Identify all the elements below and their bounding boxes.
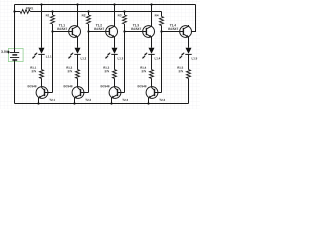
emitter arrow T1.1 xyxy=(72,34,77,37)
svg-text:L1.2: L1.2 xyxy=(80,56,86,60)
junction emitter rail xyxy=(73,102,75,104)
wire emitter down xyxy=(114,37,116,48)
wire emitter to rail xyxy=(74,98,76,104)
resistor R1.4 27k xyxy=(150,70,154,79)
wire base bias line xyxy=(30,11,161,13)
wire LED to resistor xyxy=(151,54,153,69)
wire LED to resistor xyxy=(114,54,116,69)
wire LED to resistor xyxy=(41,54,43,69)
wire collector to rail xyxy=(77,5,79,27)
resistor R1.1 27k xyxy=(40,70,44,79)
wire collector to rail xyxy=(151,5,153,27)
wire base column down xyxy=(124,32,126,93)
emitter arrow T1.4 xyxy=(183,34,188,37)
wire base bias line left xyxy=(15,11,21,13)
emitter arrow T2.2 xyxy=(75,95,81,98)
wire emitter down xyxy=(77,37,79,48)
transistor T1.3 BC547 xyxy=(143,26,155,38)
svg-text:BC547: BC547 xyxy=(168,27,178,31)
svg-text:27k: 27k xyxy=(178,69,183,73)
LED light arrows L1.5 xyxy=(182,53,185,56)
LED L1.4 xyxy=(149,48,155,54)
wire resistor to collector xyxy=(77,78,79,87)
svg-text:L1.1: L1.1 xyxy=(46,55,52,59)
wire base column down xyxy=(52,32,54,93)
wire collector to rail xyxy=(114,5,116,27)
LED L1.5 xyxy=(186,48,192,54)
svg-text:T2.1: T2.1 xyxy=(49,98,55,102)
svg-text:BC547: BC547 xyxy=(94,27,104,31)
resistor R1 xyxy=(52,12,54,16)
svg-text:R3: R3 xyxy=(118,13,122,17)
transistor T2.4 BC548 xyxy=(146,87,158,99)
svg-text:BC548: BC548 xyxy=(137,84,146,88)
junction base split R1 xyxy=(51,30,53,32)
junction base split R4 xyxy=(160,30,162,32)
wire resistor to collector xyxy=(151,78,153,87)
resistor R1.2 27k xyxy=(76,70,80,79)
wire collector stub T1.4 xyxy=(188,25,190,26)
wire base column down xyxy=(88,32,90,93)
emitter arrow T2.3 xyxy=(112,95,118,98)
wire emitter to rail xyxy=(148,98,150,104)
svg-text:R4: R4 xyxy=(155,13,159,17)
svg-text:L1.3: L1.3 xyxy=(117,56,123,60)
LED L1.2 xyxy=(75,48,81,54)
svg-text:L1.4: L1.4 xyxy=(154,56,160,60)
wire resistor to collector xyxy=(41,78,43,87)
junction emitter rail xyxy=(37,102,39,104)
resistor R3 xyxy=(124,12,126,16)
wire right feedback drop xyxy=(195,5,197,32)
svg-text:R1: R1 xyxy=(46,13,50,17)
transistor T1.1 BC547 xyxy=(69,26,81,38)
transistor T2.1 BC548 xyxy=(36,87,48,99)
svg-text:T2.3: T2.3 xyxy=(122,98,128,102)
wire bottom return rail xyxy=(15,103,189,105)
svg-text:BC547: BC547 xyxy=(57,27,67,31)
junction battery/base line xyxy=(13,10,15,12)
LED light arrows L1.3 xyxy=(108,53,111,56)
battery 3.0V xyxy=(14,5,16,53)
wire stub to T1.4 xyxy=(191,31,196,33)
resistor R4 xyxy=(161,12,163,17)
wire emitter to rail xyxy=(111,98,113,104)
transistor T1.2 BC547 xyxy=(106,26,118,38)
resistor R1.5 27k xyxy=(187,70,191,79)
svg-text:27k: 27k xyxy=(67,69,72,73)
wire column 1 from supply xyxy=(41,5,43,48)
transistor T2.3 BC548 xyxy=(109,87,121,99)
wire emitter to rail xyxy=(38,98,40,104)
wire LED to resistor xyxy=(188,54,190,69)
transistor T2.2 BC548 xyxy=(72,87,84,99)
wire last column to bottom rail xyxy=(188,78,190,103)
svg-text:BC548: BC548 xyxy=(63,84,72,88)
svg-text:BC548: BC548 xyxy=(27,84,36,88)
junction base line R1 xyxy=(51,10,53,12)
LED L1.3 xyxy=(112,48,118,54)
emitter arrow T1.3 xyxy=(146,34,151,37)
svg-text:27k: 27k xyxy=(104,69,109,73)
svg-text:27k: 27k xyxy=(141,69,146,73)
junction collector rail xyxy=(150,3,152,5)
junction base line R3 xyxy=(123,10,125,12)
junction emitter rail xyxy=(110,102,112,104)
junction collector rail xyxy=(113,3,115,5)
wire resistor to collector xyxy=(114,78,116,87)
junction emitter rail xyxy=(147,102,149,104)
wire LED to resistor xyxy=(77,54,79,69)
emitter arrow T2.1 xyxy=(39,95,45,98)
svg-text:BC548: BC548 xyxy=(100,84,109,88)
wire top supply rail xyxy=(15,4,196,6)
LED light arrows L1.2 xyxy=(71,53,74,56)
svg-text:BC547: BC547 xyxy=(131,27,141,31)
junction base line R2 xyxy=(87,10,89,12)
junction top rail col1 xyxy=(40,3,42,5)
svg-text:FSR1: FSR1 xyxy=(26,6,34,10)
LED light arrows L1.4 xyxy=(145,53,148,56)
battery plus sign xyxy=(7,51,10,53)
resistor FSR1 xyxy=(20,10,30,14)
svg-text:L1.5: L1.5 xyxy=(191,56,197,60)
svg-text:T2.2: T2.2 xyxy=(85,98,91,102)
junction collector rail xyxy=(76,3,78,5)
svg-text:27k: 27k xyxy=(31,69,36,73)
LED L1.1 xyxy=(39,48,45,54)
svg-text:T2.4: T2.4 xyxy=(159,98,165,102)
junction base split R3 xyxy=(123,30,125,32)
LED light arrows L1.1 xyxy=(35,53,38,56)
svg-text:R2: R2 xyxy=(82,13,86,17)
resistor R1.3 27k xyxy=(113,70,117,79)
selection box around battery xyxy=(8,48,23,61)
wire base column down xyxy=(161,32,163,93)
emitter arrow T2.4 xyxy=(149,95,155,98)
wire emitter down xyxy=(151,37,153,48)
resistor R2 xyxy=(88,12,90,16)
junction base split R2 xyxy=(87,30,89,32)
wire emitter down xyxy=(188,37,190,48)
transistor T1.4 BC547 xyxy=(180,26,192,38)
emitter arrow T1.2 xyxy=(109,34,114,37)
